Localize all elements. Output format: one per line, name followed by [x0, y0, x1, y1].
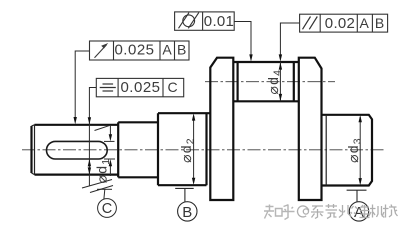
d2 dimension — [193, 116, 195, 182]
section 1 chamfer edges — [32, 125, 35, 175]
械 — [382, 205, 398, 218]
svg-text:A: A — [162, 41, 172, 57]
FCF frame 2: symmetry 0.025 C — [96, 78, 183, 96]
svg-text:⌀d2: ⌀d2 — [178, 137, 197, 163]
runout arrow symbol — [95, 45, 107, 58]
svg-text:⌀d3: ⌀d3 — [345, 137, 364, 163]
准 — [354, 205, 370, 218]
svg-text:0.025: 0.025 — [114, 41, 154, 58]
svg-text:⌀d4: ⌀d4 — [265, 69, 284, 95]
keyway width dimension — [104, 125, 115, 176]
leader symmetry frame / d1 dimension line — [89, 88, 110, 187]
FCF frame 1: circular runout 0.025 A B — [90, 41, 190, 60]
d4 dimension — [279, 62, 281, 101]
东 — [311, 206, 324, 219]
crank web 2 — [299, 58, 322, 200]
section 3 (d2 journal) — [158, 113, 210, 185]
cylindricity symbol — [179, 13, 199, 29]
datum A — [347, 190, 369, 221]
datum C — [82, 180, 116, 218]
watermark 知乎 @东莞兆准机械 — [264, 205, 295, 220]
svg-text:C: C — [168, 79, 178, 95]
cylindricity leader — [234, 22, 251, 59]
parallelism leader — [280, 23, 299, 58]
section 1 left journal outline — [32, 125, 118, 175]
svg-text:B: B — [182, 204, 192, 221]
d3 dimension — [359, 117, 361, 183]
乎 — [282, 205, 295, 220]
parallelism symbol — [303, 17, 318, 30]
symmetry symbol — [100, 84, 116, 91]
datum B — [175, 188, 197, 221]
svg-text:0.01: 0.01 — [204, 13, 234, 30]
crank pin (d4) — [233, 62, 298, 101]
section 4 (d3 journal) — [322, 115, 373, 186]
@ — [298, 206, 309, 217]
莞 — [326, 204, 338, 219]
crank web 1 — [210, 58, 233, 200]
知 — [264, 205, 282, 219]
svg-text:0.025: 0.025 — [120, 79, 160, 96]
main shaft centerline — [22, 149, 386, 151]
机 — [369, 205, 385, 218]
leader runout frame — [75, 51, 89, 121]
svg-text:C: C — [102, 201, 112, 217]
兆 — [339, 205, 354, 218]
section 4 fillet line — [325, 115, 327, 186]
svg-text:B: B — [177, 41, 186, 57]
FCF frame 4: parallelism 0.02 A B — [300, 14, 388, 32]
crank pin centerline — [205, 81, 335, 83]
svg-text:⌀d1: ⌀d1 — [93, 158, 112, 184]
section 2 step — [118, 122, 158, 177]
FCF frame 3: cylindricity 0.01 — [175, 12, 235, 30]
svg-text:A: A — [360, 15, 370, 31]
keyway slot — [46, 141, 107, 159]
svg-text:0.02: 0.02 — [325, 15, 355, 32]
svg-text:B: B — [375, 15, 384, 31]
